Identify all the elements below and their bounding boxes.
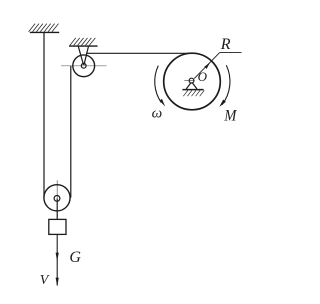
hub of pulley P2 xyxy=(54,196,60,202)
ceiling bar right xyxy=(69,45,98,47)
arrowhead omega xyxy=(160,99,166,107)
wire rope horizontal xyxy=(86,52,192,54)
arrowhead M xyxy=(219,100,226,108)
svg-text:R: R xyxy=(220,36,231,53)
ground hatch xyxy=(183,90,204,96)
pivot triangle xyxy=(186,83,191,89)
pin O xyxy=(189,78,194,83)
wire hook to weight xyxy=(56,198,58,219)
svg-text:ω: ω xyxy=(152,105,163,121)
arc M xyxy=(222,65,230,105)
ceiling hatch right xyxy=(70,38,96,46)
svg-text:G: G xyxy=(69,249,81,266)
svg-text:M: M xyxy=(223,107,237,124)
centerline of pulley P2 xyxy=(56,180,58,198)
weight block xyxy=(49,219,66,234)
svg-text:O: O xyxy=(198,69,208,84)
arc omega xyxy=(155,66,161,103)
wire left rope xyxy=(43,32,45,197)
wire force line xyxy=(56,234,58,285)
pulley P2 xyxy=(44,185,70,211)
arrowhead V xyxy=(56,278,59,287)
arrowhead R xyxy=(204,62,210,69)
ceiling hatch left xyxy=(29,24,59,32)
bracket of pulley P1 xyxy=(78,46,83,65)
wire rope right vertical xyxy=(70,66,72,198)
ground line xyxy=(182,89,203,91)
svg-text:V: V xyxy=(40,273,50,288)
centerline of pin O xyxy=(184,80,194,82)
ceiling bar left xyxy=(30,31,59,33)
arrowhead G xyxy=(56,253,59,262)
wheel rim xyxy=(164,53,221,110)
centerline of pulley P1 xyxy=(61,65,107,67)
radius leader R xyxy=(194,52,220,78)
pulley P1 xyxy=(73,55,95,77)
hub of pulley P1 xyxy=(81,63,86,68)
